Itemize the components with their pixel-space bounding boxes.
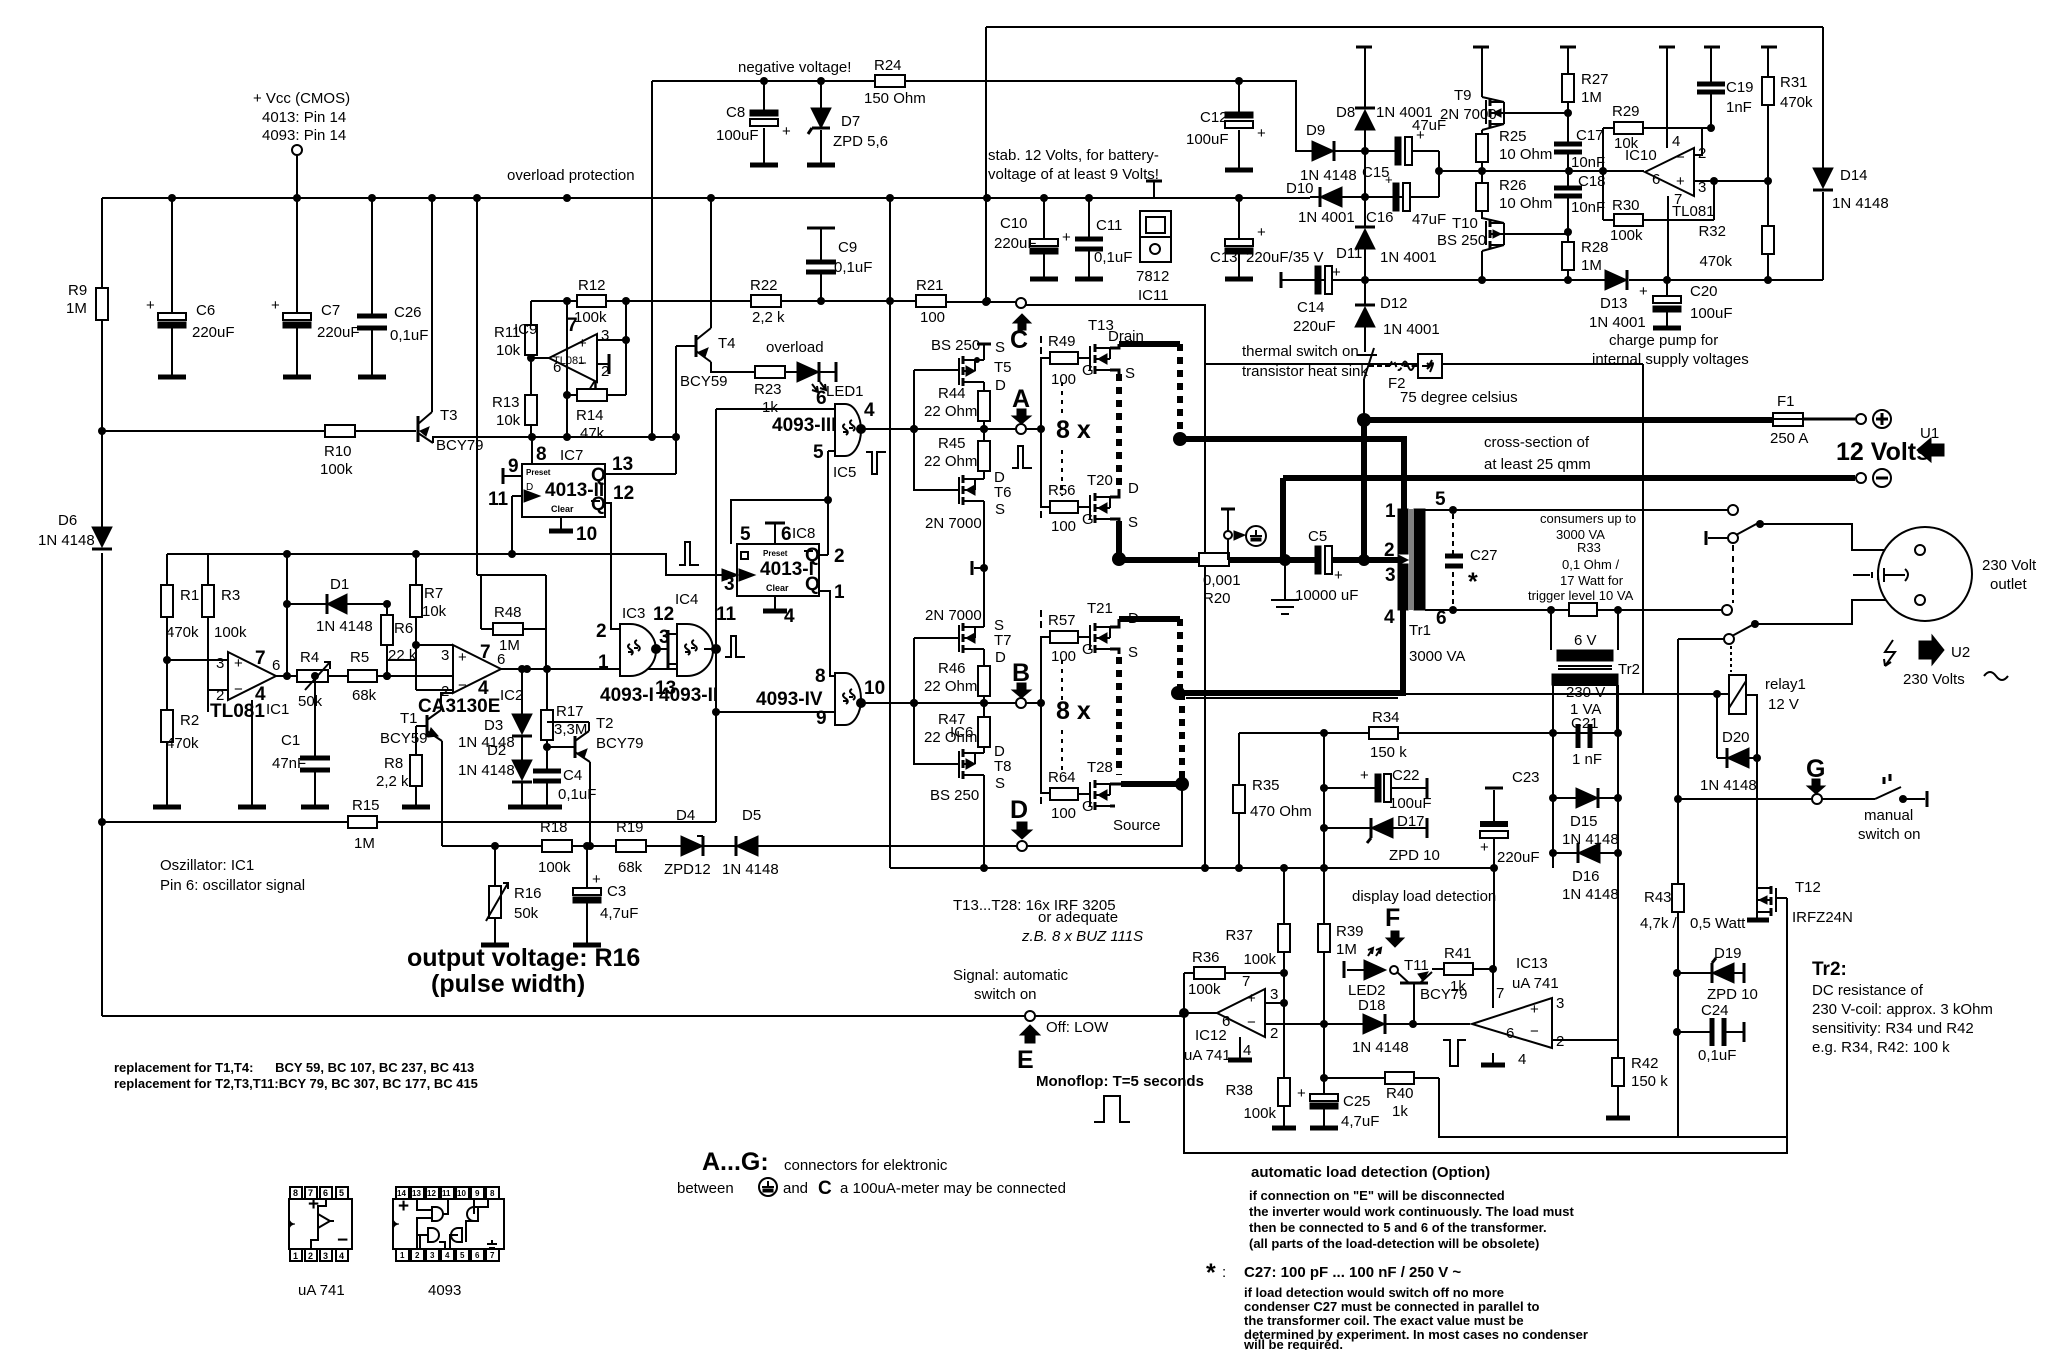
- svg-text:S: S: [995, 501, 1005, 518]
- svg-text:F1: F1: [1777, 393, 1795, 410]
- wire IC9 pin3 to R12 node: [597, 301, 626, 395]
- svg-text:thermal switch on: thermal switch on: [1242, 343, 1359, 360]
- svg-text:3: 3: [1385, 565, 1396, 586]
- ground IC13 pin4: [1481, 1053, 1505, 1065]
- svg-text:IC12: IC12: [1195, 1027, 1227, 1044]
- fuse F1: [1770, 393, 1808, 447]
- svg-text:3: 3: [216, 655, 224, 672]
- capacitor C21: [1553, 715, 1618, 768]
- wire R18 line: [442, 845, 1017, 847]
- svg-text:6: 6: [1436, 608, 1447, 629]
- svg-text:Preset: Preset: [763, 549, 788, 558]
- wire Vcc rail to D10: [1310, 196, 1439, 198]
- svg-text:uA 741: uA 741: [1512, 975, 1559, 992]
- capacitor C4: [533, 743, 596, 807]
- svg-text:0,1 Ohm /: 0,1 Ohm /: [1562, 557, 1619, 572]
- svg-text:+: +: [592, 871, 601, 888]
- resistor R47: [924, 711, 990, 753]
- svg-text:T21: T21: [1087, 600, 1113, 617]
- svg-text:1 nF: 1 nF: [1572, 751, 1602, 768]
- svg-text:22 Ohm: 22 Ohm: [924, 729, 977, 746]
- svg-text:220uF: 220uF: [317, 324, 360, 341]
- svg-text:internal supply voltages: internal supply voltages: [1592, 351, 1749, 368]
- wire IC8 pin4 clear ground: [763, 596, 795, 627]
- wire relay to D20 right vertical: [1746, 695, 1757, 883]
- svg-text:R45: R45: [938, 435, 966, 452]
- resistor R23: [754, 339, 824, 416]
- wire R37 to IC12 pin3: [1283, 952, 1285, 1003]
- svg-text:1M: 1M: [354, 835, 375, 852]
- svg-text:D5: D5: [742, 807, 761, 824]
- svg-text:R47: R47: [938, 711, 966, 728]
- wire IC5 pin5: [828, 450, 835, 452]
- svg-text:R43: R43: [1644, 889, 1672, 906]
- svg-text:+: +: [1360, 767, 1369, 784]
- svg-text:C24: C24: [1701, 1002, 1729, 1019]
- svg-text:+: +: [146, 297, 155, 314]
- svg-text:TL081: TL081: [210, 701, 265, 722]
- ground IC1 pin4: [238, 805, 266, 810]
- capacitor C1: [272, 672, 330, 807]
- svg-text:4093: 4093: [428, 1282, 461, 1299]
- pulse symbol IC6: [724, 644, 726, 646]
- svg-text:if connection on "E" will be: if connection on "E" will be disconnecte…: [1249, 1188, 1505, 1203]
- gate IC4 4093-II: [653, 591, 737, 706]
- wire x1324 column: [1323, 733, 1325, 1128]
- svg-text:2,2 k: 2,2 k: [752, 309, 785, 326]
- diode D7 ZPD 5,6: [807, 81, 888, 165]
- svg-text:R32: R32: [1698, 223, 1726, 240]
- svg-text:75 degree celsius: 75 degree celsius: [1400, 389, 1518, 406]
- node D terminal: [1010, 796, 1032, 851]
- pulse symbol near IC8: [679, 542, 699, 565]
- svg-text:R3: R3: [221, 587, 240, 604]
- svg-text:R18: R18: [540, 819, 568, 836]
- svg-text:7: 7: [1242, 973, 1250, 990]
- svg-text:1N 4001: 1N 4001: [1298, 209, 1355, 226]
- wire Vcc drop x890 to bottom rail: [889, 198, 891, 868]
- svg-text:100k: 100k: [574, 309, 607, 326]
- svg-text:trigger level 10 VA: trigger level 10 VA: [1528, 588, 1634, 603]
- transistor T10 BS250: [1437, 211, 1568, 280]
- svg-text:12: 12: [427, 1189, 436, 1198]
- svg-text:230 Volt: 230 Volt: [1982, 557, 2037, 574]
- svg-text:at least 25 qmm: at least 25 qmm: [1484, 456, 1591, 473]
- svg-text:+: +: [1247, 990, 1256, 1007]
- capacitor C8: [716, 81, 791, 165]
- svg-text:−: −: [234, 681, 243, 698]
- transistor T4 BCY59: [676, 198, 755, 474]
- svg-text:+: +: [458, 649, 467, 666]
- text paragraph C27: [1243, 1285, 1588, 1350]
- resistor R31: [1762, 47, 1813, 181]
- resistor R2: [161, 700, 199, 805]
- svg-text:overload: overload: [766, 339, 824, 356]
- resistor R7: [410, 554, 447, 645]
- gate IC3 4093-I: [596, 605, 656, 706]
- svg-text:0,001: 0,001: [1203, 572, 1241, 589]
- svg-text:T11: T11: [1404, 957, 1429, 974]
- svg-text:R30: R30: [1612, 197, 1640, 214]
- svg-text:Clear: Clear: [551, 504, 574, 514]
- svg-text:1N 4148: 1N 4148: [1562, 831, 1619, 848]
- resistor R56: [1048, 482, 1094, 535]
- resistor R46: [924, 660, 990, 717]
- gate IC6 4093-IV: [756, 666, 973, 741]
- svg-text:R8: R8: [384, 755, 403, 772]
- svg-text:C26: C26: [394, 304, 422, 321]
- transistor T12 IRFZ24N: [1747, 879, 1853, 926]
- svg-text:10k: 10k: [496, 342, 521, 359]
- IC IC8 4013-I: [737, 525, 820, 596]
- svg-text:7812: 7812: [1136, 268, 1169, 285]
- svg-text:condenser C27 must be connect: condenser C27 must be connected in paral…: [1244, 1299, 1540, 1314]
- svg-text:10: 10: [457, 1189, 466, 1198]
- svg-text:LED1: LED1: [826, 383, 864, 400]
- svg-text:10k: 10k: [496, 412, 521, 429]
- svg-text:uA 741: uA 741: [1184, 1047, 1231, 1064]
- wire dashed dividers upper: [1061, 382, 1063, 496]
- resistor R25: [1476, 128, 1552, 183]
- wire IC7 pin9 preset: [503, 456, 522, 484]
- svg-text:22 Ohm: 22 Ohm: [924, 403, 977, 420]
- svg-text:R29: R29: [1612, 103, 1640, 120]
- svg-text:R15: R15: [352, 797, 380, 814]
- wire Tr1 pin6 line: [1425, 609, 1722, 611]
- pulse symbol monoflop: [1094, 1096, 1130, 1122]
- svg-text:2: 2: [415, 1251, 420, 1260]
- svg-text:Tr1: Tr1: [1409, 622, 1431, 639]
- svg-text:47uF: 47uF: [1412, 211, 1446, 228]
- svg-text:D11: D11: [1336, 245, 1362, 262]
- svg-text:IC5: IC5: [833, 464, 856, 481]
- text Tr2 info: [1812, 959, 1993, 1056]
- svg-text:display load detection: display load detection: [1352, 888, 1496, 905]
- svg-text:D: D: [1128, 480, 1139, 497]
- svg-text:+ Vcc (CMOS): + Vcc (CMOS): [253, 90, 350, 107]
- svg-text:ZPD 5,6: ZPD 5,6: [833, 133, 888, 150]
- resistor R24: [864, 57, 926, 107]
- svg-text:Tr2: Tr2: [1618, 661, 1640, 678]
- svg-text:4: 4: [1672, 133, 1680, 150]
- svg-text:50k: 50k: [298, 693, 323, 710]
- wire IC1 out up to y554: [286, 554, 288, 676]
- svg-text:22 Ohm: 22 Ohm: [924, 453, 977, 470]
- wire thick upper drain bus: [1119, 341, 1180, 347]
- outlet 230V: [1853, 527, 2037, 621]
- svg-text:8: 8: [490, 1189, 495, 1198]
- svg-text:7: 7: [567, 315, 578, 336]
- transistor T8 BS 250: [930, 743, 1012, 868]
- svg-text:or adequate: or adequate: [1038, 909, 1118, 926]
- op-amp IC12 uA741: [1184, 973, 1278, 1064]
- svg-text:Monoflop: T=5 seconds: Monoflop: T=5 seconds: [1036, 1073, 1204, 1090]
- svg-text:Signal: automatic: Signal: automatic: [953, 967, 1069, 984]
- diode D13 1N4001: [1589, 270, 1646, 331]
- transistor T13 IRF3205: [1088, 317, 1144, 382]
- svg-text:2N 7000: 2N 7000: [925, 515, 982, 532]
- svg-text:5: 5: [339, 1188, 344, 1198]
- svg-text:R38: R38: [1225, 1082, 1253, 1099]
- wire D16 right to R42: [1617, 853, 1619, 1058]
- svg-text:R25: R25: [1499, 128, 1527, 145]
- svg-text:Tr2:: Tr2:: [1812, 959, 1847, 980]
- svg-text:1k: 1k: [762, 399, 778, 416]
- pulse symbol IC5 out: [866, 452, 886, 474]
- svg-text:12 Volts: 12 Volts: [1836, 438, 1930, 466]
- svg-text:+: +: [1297, 1085, 1306, 1102]
- diode D11 1N4001: [1336, 193, 1437, 301]
- svg-text:D4: D4: [676, 807, 695, 824]
- svg-text:D: D: [995, 649, 1006, 666]
- wire C23 to R41 column: [1492, 969, 1494, 1008]
- wire IC12 output node: [1184, 1013, 1217, 1016]
- svg-text:6: 6: [323, 1188, 328, 1198]
- resistor R34: [1369, 709, 1407, 761]
- pulse symbol below A: [1012, 446, 1032, 468]
- svg-text:R1: R1: [180, 587, 199, 604]
- svg-text:220uF: 220uF: [1293, 318, 1336, 335]
- svg-text:C27: 100 pF ... 100 nF / 250 V: C27: 100 pF ... 100 nF / 250 V ~: [1244, 1264, 1461, 1281]
- wire R4 to R5: [328, 675, 348, 677]
- svg-text:7: 7: [255, 648, 266, 669]
- wire R10 line: [102, 430, 416, 432]
- svg-text:R6: R6: [394, 620, 413, 637]
- transistor T5 BS 250: [931, 337, 1012, 394]
- svg-text:IC11: IC11: [1138, 287, 1169, 304]
- svg-text:250 A: 250 A: [1770, 430, 1808, 447]
- svg-text:−: −: [1530, 1023, 1539, 1040]
- svg-text:D18: D18: [1358, 997, 1386, 1014]
- svg-text:C19: C19: [1726, 79, 1754, 96]
- resistor R30: [1603, 171, 1714, 244]
- resistor R48: [477, 198, 546, 669]
- svg-text:8: 8: [815, 666, 826, 687]
- resistor R12: [574, 277, 607, 326]
- svg-text:C9: C9: [838, 239, 857, 256]
- LED1: [785, 362, 864, 400]
- svg-text:+: +: [1480, 839, 1489, 856]
- resistor R27: [1562, 47, 1609, 117]
- wire B line: [984, 702, 1016, 704]
- svg-text:−: −: [1247, 1014, 1256, 1031]
- wire neg voltage to D9 line: [987, 81, 1312, 151]
- capacitor C5 10000uF: [1295, 528, 1358, 604]
- wire switch lower: [1678, 600, 1914, 799]
- svg-text:T6: T6: [994, 484, 1012, 501]
- svg-text:100k: 100k: [1188, 981, 1221, 998]
- svg-text:C3: C3: [607, 883, 626, 900]
- svg-text:1: 1: [834, 582, 845, 603]
- svg-text:A...G:: A...G:: [702, 1148, 769, 1176]
- svg-text:e.g. R34, R42: 100 k: e.g. R34, R42: 100 k: [1812, 1039, 1950, 1056]
- svg-text:C25: C25: [1343, 1093, 1371, 1110]
- svg-text:D2: D2: [487, 742, 506, 759]
- resistor R4 potentiometer: [297, 649, 331, 710]
- svg-text:7: 7: [1496, 985, 1504, 1002]
- svg-text:D15: D15: [1570, 813, 1598, 830]
- pulse symbol IC13: [1443, 1040, 1466, 1066]
- capacitor C20 100uF: [1639, 280, 1733, 328]
- resistor R1: [161, 554, 199, 660]
- wire thick dotted T21S-T28D: [1116, 657, 1122, 775]
- svg-text:CA3130E: CA3130E: [418, 696, 500, 717]
- svg-text:IC9: IC9: [514, 321, 537, 338]
- svg-text:0,1uF: 0,1uF: [1698, 1047, 1736, 1064]
- svg-text:8 x: 8 x: [1056, 416, 1091, 444]
- svg-text:D19: D19: [1714, 945, 1742, 962]
- svg-text:D14: D14: [1840, 167, 1868, 184]
- svg-text:100uF: 100uF: [1690, 305, 1733, 322]
- transistor T7 2N7000: [925, 568, 1012, 666]
- switch manual: [1822, 774, 1927, 843]
- capacitor C18: [1554, 171, 1606, 236]
- wire thick 12V plus rail: [1364, 417, 1773, 423]
- svg-text:BCY59: BCY59: [680, 373, 728, 390]
- svg-text:8: 8: [293, 1188, 298, 1198]
- svg-text:TL081: TL081: [1672, 203, 1715, 220]
- svg-text:C14: C14: [1297, 299, 1325, 316]
- svg-text:C27: C27: [1470, 547, 1498, 564]
- svg-text:1N 4148: 1N 4148: [38, 532, 95, 549]
- svg-text:R19: R19: [616, 819, 644, 836]
- resistor R10: [320, 425, 355, 478]
- wire left edge vertical: [101, 198, 103, 1016]
- wire thick T21 drain bus: [1119, 616, 1180, 622]
- svg-text:2: 2: [1384, 540, 1395, 561]
- svg-text:E: E: [1017, 1046, 1034, 1074]
- svg-text:G: G: [1082, 362, 1094, 379]
- svg-text:150 Ohm: 150 Ohm: [864, 90, 926, 107]
- wire R40 loop to G column: [1439, 1078, 1787, 1137]
- svg-text:R4: R4: [300, 649, 319, 666]
- node pin5 open terminal: [1728, 505, 1738, 515]
- node G terminal: [1806, 755, 1825, 804]
- capacitor C19: [1697, 47, 1754, 132]
- diode D17 ZPD 10: [1324, 813, 1440, 864]
- svg-text:R31: R31: [1780, 74, 1808, 91]
- resistor R17 3,3M: [541, 665, 587, 747]
- resistor R29: [1603, 103, 1711, 171]
- svg-text:R10: R10: [324, 443, 352, 460]
- resistor R40: [1324, 1072, 1439, 1120]
- svg-text:C12: C12: [1200, 109, 1228, 126]
- svg-text:IC10: IC10: [1625, 147, 1657, 164]
- svg-text:R22: R22: [750, 277, 778, 294]
- svg-text:F: F: [1385, 904, 1400, 932]
- svg-text:2N 7000: 2N 7000: [1440, 106, 1497, 123]
- svg-text:T8: T8: [994, 758, 1012, 775]
- wire IC8 pin3 clock in: [716, 569, 738, 595]
- svg-text:IC3: IC3: [622, 605, 645, 622]
- node A terminal: [1012, 385, 1045, 434]
- svg-text:1: 1: [400, 1251, 405, 1260]
- svg-text:11: 11: [716, 604, 737, 625]
- svg-text:the inverter would work conti: the inverter would work continuously. Th…: [1249, 1204, 1574, 1219]
- wire thick dotted T13S-T20D: [1116, 374, 1122, 486]
- svg-text:BS 250: BS 250: [930, 787, 979, 804]
- wire IC3 pin2: [611, 628, 620, 630]
- op-amp IC13 uA741: [1472, 955, 1564, 1068]
- wire IC7 pin10 clear ground: [549, 517, 597, 545]
- svg-text:4093-III: 4093-III: [772, 415, 836, 436]
- svg-text:D8: D8: [1336, 104, 1355, 121]
- svg-text:10 Ohm: 10 Ohm: [1499, 195, 1552, 212]
- svg-text:100k: 100k: [1610, 227, 1643, 244]
- svg-text:47k: 47k: [580, 425, 605, 442]
- svg-text:22 k: 22 k: [388, 647, 417, 664]
- svg-text:BCY79: BCY79: [596, 735, 644, 752]
- svg-text:13: 13: [612, 454, 633, 475]
- wire IC12 out monoflop loop: [1184, 898, 1787, 1153]
- diode D1 1N4148: [287, 576, 387, 635]
- svg-text:4: 4: [1384, 607, 1395, 628]
- capacitor C9: [806, 228, 872, 301]
- diode D20 1N4148: [1700, 694, 1761, 794]
- wire IC10 pin4 supply: [1666, 47, 1668, 148]
- svg-text:R48: R48: [494, 604, 522, 621]
- svg-text:1N 4148: 1N 4148: [458, 762, 515, 779]
- svg-text:8 x: 8 x: [1056, 697, 1091, 725]
- wire R21/R22 line: [626, 301, 1016, 302]
- svg-text:+: +: [1332, 264, 1341, 281]
- wire Vcc terminal drop: [296, 155, 298, 198]
- wire relay feed line: [1643, 364, 1730, 694]
- capacitor C12: [1186, 77, 1266, 170]
- capacitor C27: [1445, 514, 1498, 606]
- node F: [1385, 904, 1404, 947]
- wire G line: [1678, 798, 1812, 800]
- capacitor C16 47uF: [1366, 172, 1446, 228]
- svg-text:R5: R5: [350, 649, 369, 666]
- node E terminal: [1017, 1011, 1109, 1074]
- svg-text:1N 4148: 1N 4148: [316, 618, 373, 635]
- wire top mid rail y=554: [208, 554, 722, 575]
- svg-text:R21: R21: [916, 277, 944, 294]
- svg-text:0,5 Watt: 0,5 Watt: [1690, 915, 1746, 932]
- svg-text:Source: Source: [1113, 817, 1161, 834]
- svg-text:10 Ohm: 10 Ohm: [1499, 146, 1552, 163]
- capacitor C26: [357, 198, 428, 377]
- wire switch upper: [1643, 510, 1914, 694]
- svg-text:R34: R34: [1372, 709, 1400, 726]
- capacitor C14 220uF: [1281, 264, 1341, 335]
- svg-text:output voltage: R16: output voltage: R16: [407, 944, 640, 972]
- wire 12V rail to Tr1 pin2: [1361, 420, 1367, 560]
- svg-text:T10: T10: [1452, 215, 1478, 232]
- svg-text:470k: 470k: [1780, 94, 1813, 111]
- resistor R43: [1640, 799, 1746, 1137]
- svg-text:4: 4: [1518, 1051, 1526, 1068]
- wire oscillator box bottom / E line: [102, 1015, 1184, 1017]
- resistor R45: [924, 435, 990, 478]
- svg-text:if load detection would switch: if load detection would switch off no mo…: [1244, 1285, 1504, 1300]
- svg-text:2: 2: [1270, 1025, 1278, 1042]
- node B terminal: [1012, 659, 1045, 708]
- svg-text:R39: R39: [1336, 923, 1364, 940]
- svg-text:1nF: 1nF: [1726, 99, 1752, 116]
- svg-text:−: −: [1676, 149, 1685, 166]
- resistor R8: [376, 755, 430, 807]
- svg-text:1N 4148: 1N 4148: [1832, 195, 1889, 212]
- wire F1 to plus terminal: [1803, 418, 1855, 421]
- svg-text:G: G: [1082, 641, 1094, 658]
- wire IC10 pin2 to C19: [1694, 128, 1711, 155]
- svg-text:10000 uF: 10000 uF: [1295, 587, 1358, 604]
- svg-text:C8: C8: [726, 104, 745, 121]
- wire IC9 pin2 terminal: [597, 363, 609, 365]
- svg-text:C7: C7: [321, 302, 340, 319]
